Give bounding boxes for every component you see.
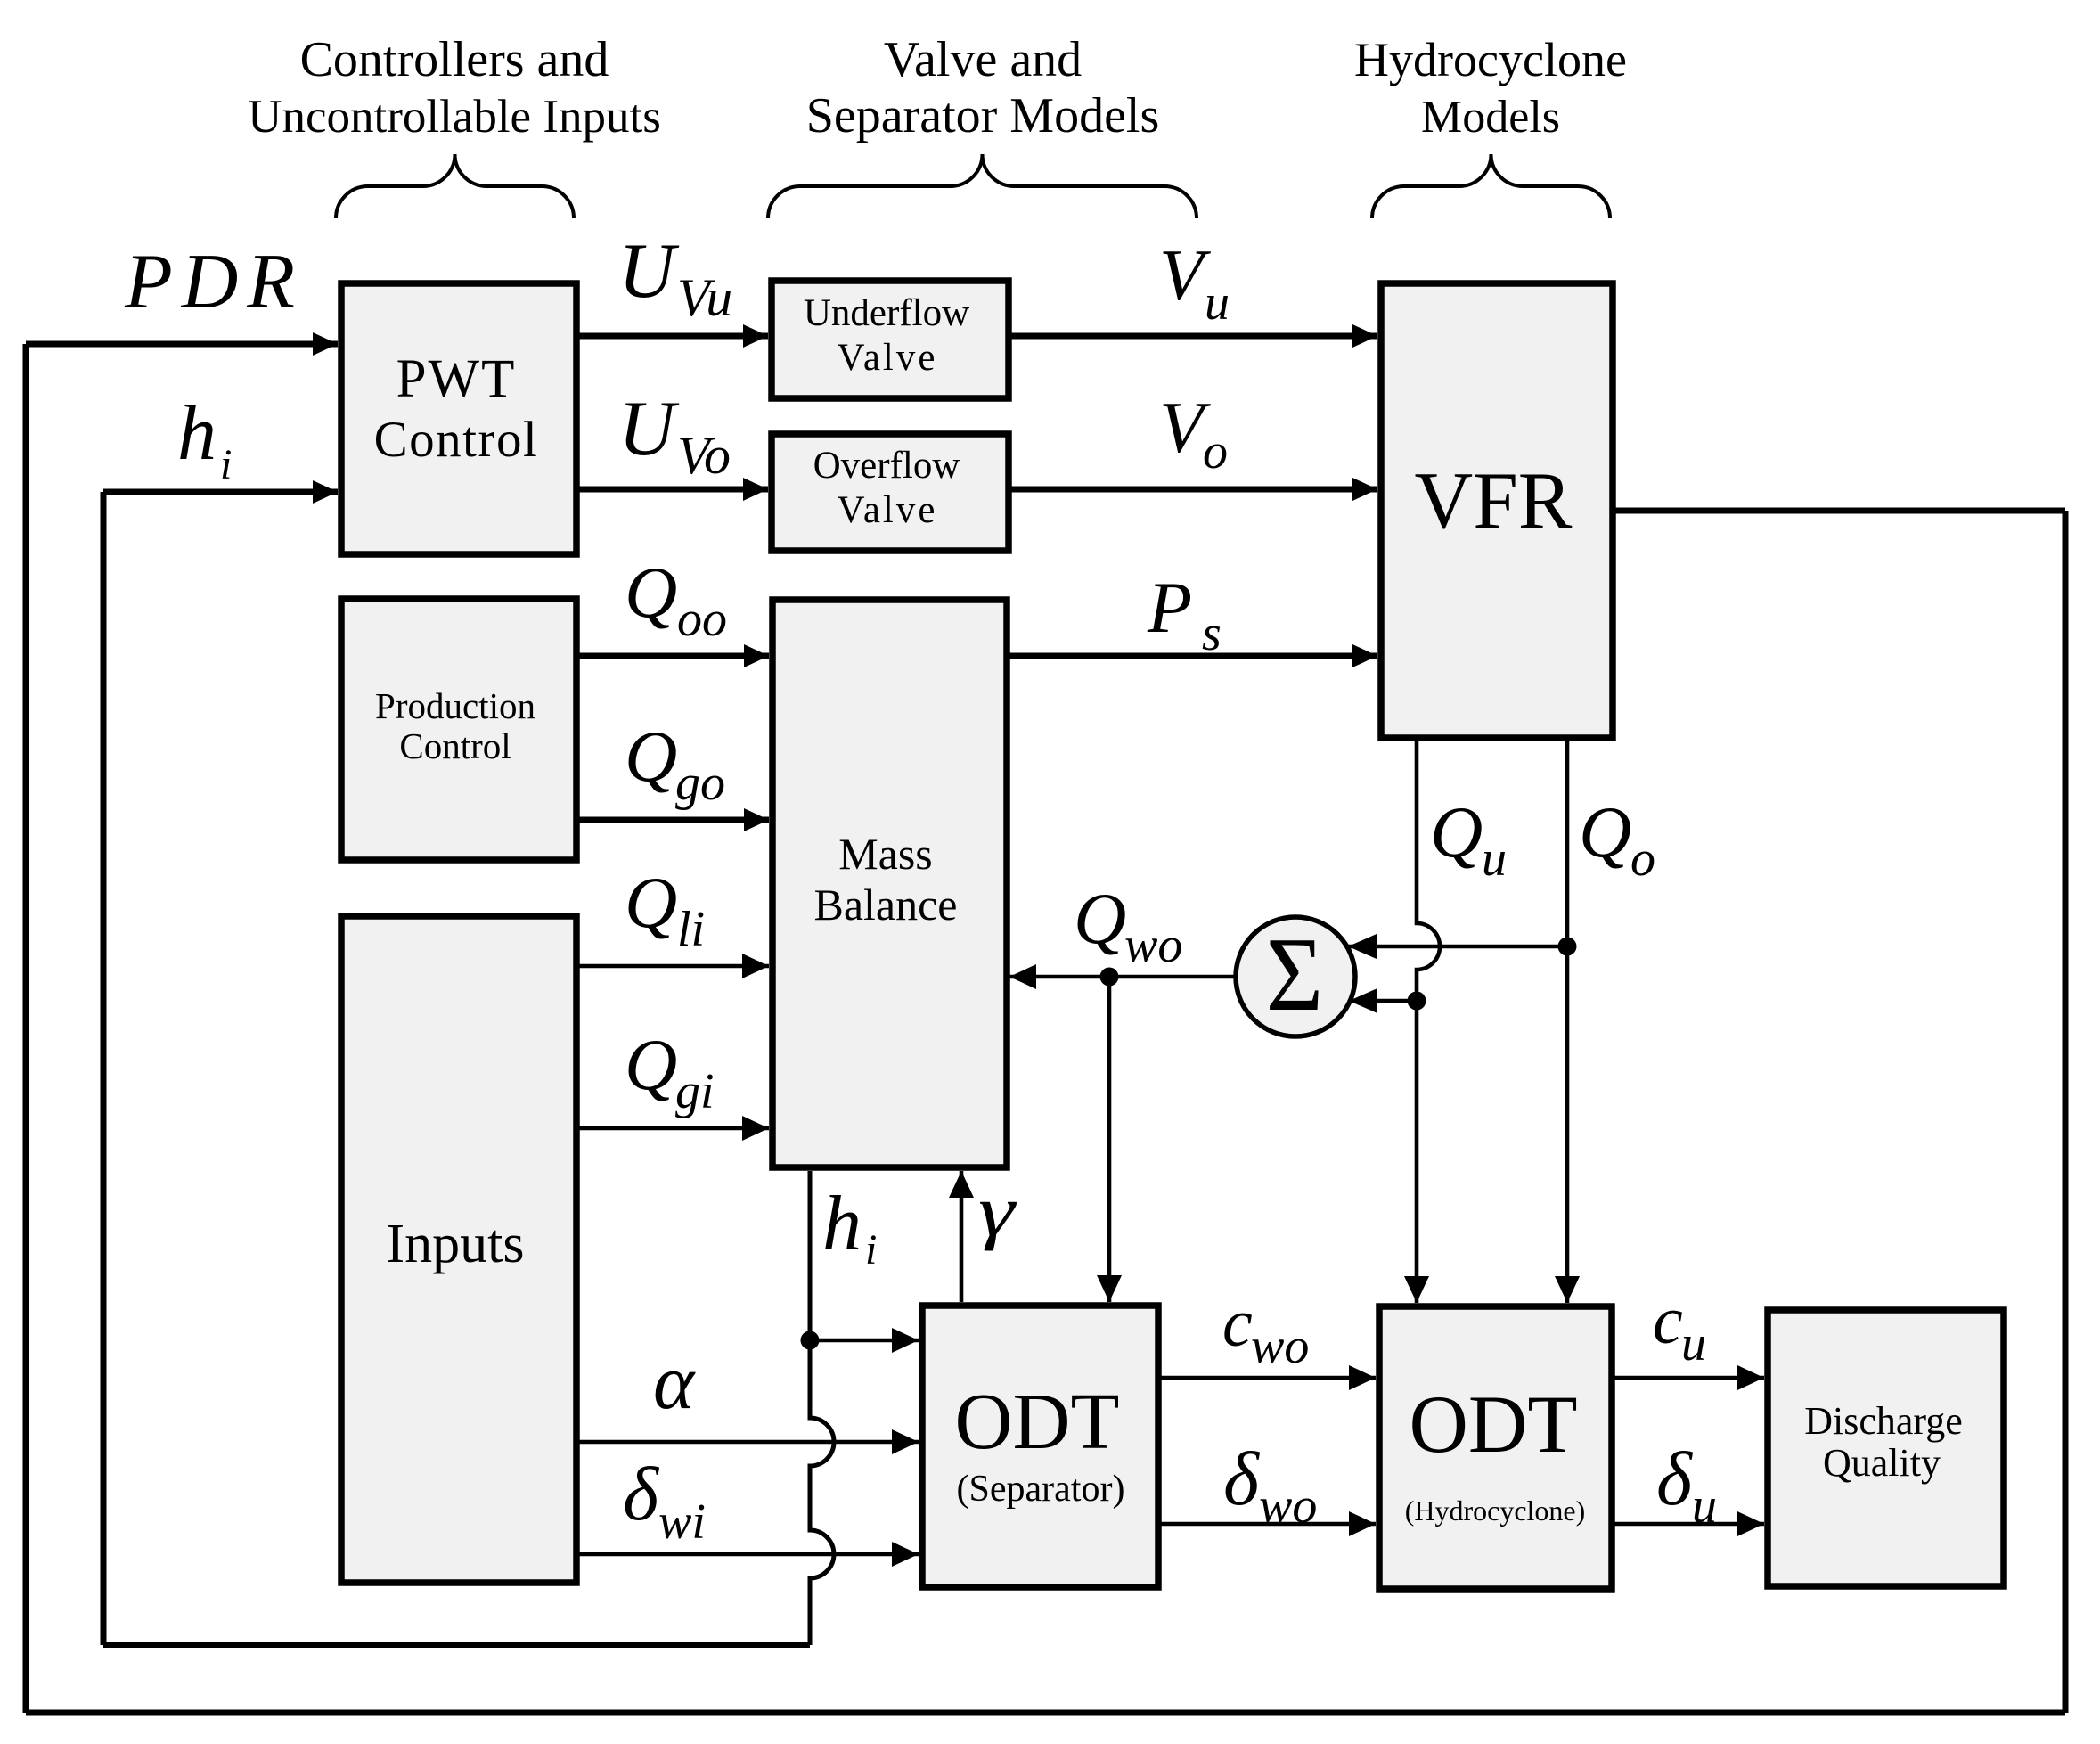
svg-text:wo: wo	[1124, 918, 1182, 973]
svg-text:Q: Q	[625, 716, 677, 797]
svg-text:o: o	[1630, 831, 1655, 887]
svg-text:Quality: Quality	[1823, 1441, 1941, 1485]
svg-text:α: α	[653, 1339, 696, 1426]
svg-text:Q: Q	[1430, 791, 1483, 872]
svg-text:Valve and: Valve and	[884, 32, 1082, 87]
svg-text:Control: Control	[399, 725, 511, 766]
svg-text:(Hydrocyclone): (Hydrocyclone)	[1405, 1494, 1586, 1527]
svg-text:VFR: VFR	[1414, 455, 1572, 545]
svg-text:c: c	[1653, 1283, 1683, 1358]
svg-text:PDR: PDR	[124, 239, 304, 325]
svg-text:wi: wi	[658, 1494, 706, 1550]
svg-text:γ: γ	[978, 1171, 1017, 1252]
svg-text:Production: Production	[375, 685, 535, 726]
svg-text:Controllers and: Controllers and	[300, 32, 609, 87]
svg-text:wo: wo	[1259, 1478, 1317, 1534]
svg-text:Overflow: Overflow	[813, 445, 960, 487]
svg-text:c: c	[1222, 1286, 1253, 1361]
svg-text:U: U	[618, 386, 680, 472]
svg-text:s: s	[1202, 606, 1222, 661]
svg-text:Valve: Valve	[838, 337, 938, 379]
svg-text:Models: Models	[1421, 92, 1560, 143]
svg-text:gi: gi	[675, 1064, 715, 1119]
svg-text:Vu: Vu	[677, 268, 732, 327]
svg-text:u: u	[1205, 275, 1230, 331]
svg-text:Valve: Valve	[838, 489, 938, 531]
svg-text:Control: Control	[374, 412, 539, 468]
svg-text:Inputs: Inputs	[387, 1214, 525, 1274]
svg-text:(Separator): (Separator)	[957, 1469, 1125, 1510]
svg-text:go: go	[675, 756, 725, 811]
svg-text:h: h	[822, 1181, 862, 1267]
svg-text:Underflow: Underflow	[804, 292, 969, 334]
svg-text:Balance: Balance	[813, 880, 957, 929]
svg-text:Q: Q	[625, 552, 677, 633]
svg-text:Q: Q	[625, 1024, 677, 1105]
svg-text:Mass: Mass	[838, 829, 933, 879]
svg-text:u: u	[1681, 1316, 1706, 1371]
svg-text:h: h	[177, 390, 217, 477]
svg-text:U: U	[618, 228, 680, 315]
svg-text:Σ: Σ	[1266, 915, 1323, 1033]
svg-text:Vo: Vo	[677, 426, 731, 485]
svg-text:Uncontrollable Inputs: Uncontrollable Inputs	[248, 91, 661, 143]
svg-text:wo: wo	[1251, 1319, 1309, 1374]
svg-text:δ: δ	[1223, 1436, 1261, 1521]
svg-text:Hydrocyclone: Hydrocyclone	[1354, 33, 1627, 86]
svg-text:i: i	[865, 1226, 877, 1273]
svg-text:Discharge: Discharge	[1804, 1399, 1963, 1443]
svg-text:o: o	[1203, 424, 1228, 479]
svg-text:Q: Q	[1579, 791, 1631, 872]
svg-text:u: u	[1692, 1478, 1717, 1534]
svg-text:δ: δ	[1656, 1436, 1694, 1521]
svg-text:oo: oo	[677, 592, 727, 647]
svg-text:Q: Q	[1074, 878, 1126, 959]
svg-text:V: V	[1159, 234, 1211, 315]
svg-text:P: P	[1147, 567, 1192, 648]
svg-text:Separator Models: Separator Models	[806, 88, 1160, 143]
svg-text:δ: δ	[623, 1451, 660, 1536]
svg-text:li: li	[677, 902, 705, 957]
svg-text:u: u	[1482, 831, 1507, 887]
svg-text:i: i	[220, 441, 232, 488]
svg-text:PWT: PWT	[396, 349, 517, 409]
svg-text:Q: Q	[625, 862, 677, 943]
svg-text:ODT: ODT	[955, 1378, 1120, 1466]
svg-text:ODT: ODT	[1409, 1379, 1577, 1470]
